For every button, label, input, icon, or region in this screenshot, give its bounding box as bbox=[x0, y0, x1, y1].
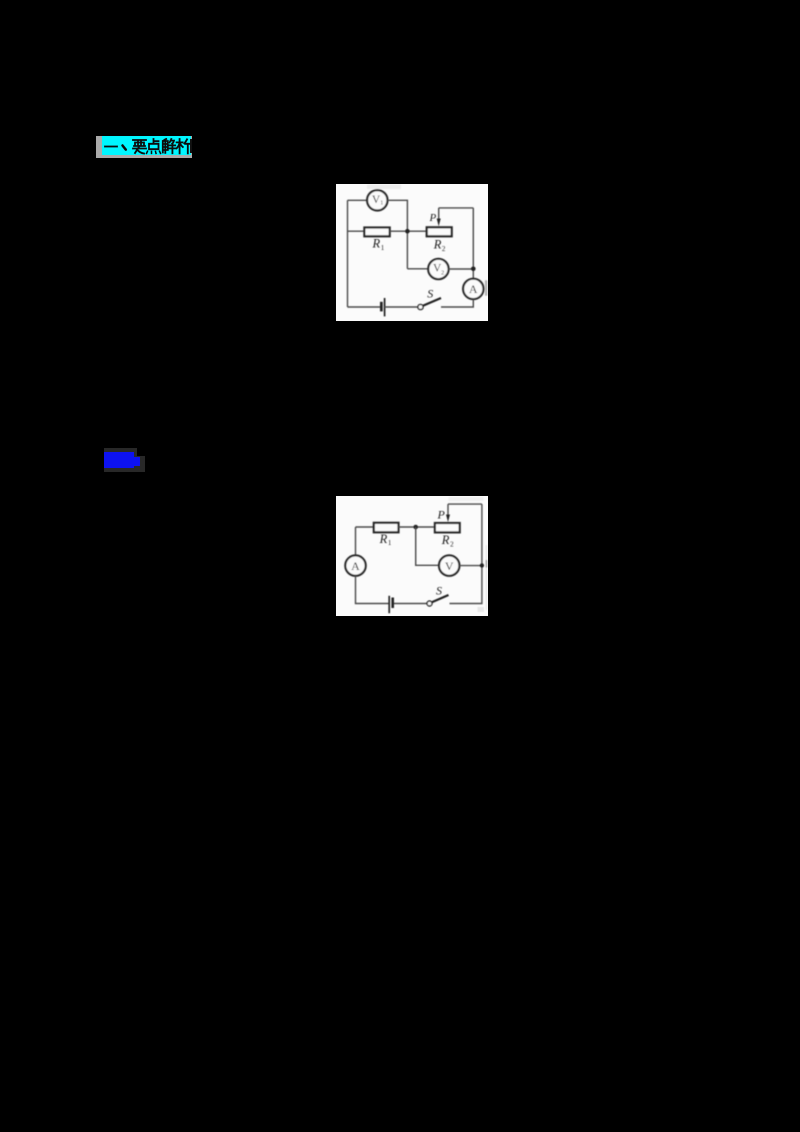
figure 2 white panel bbox=[336, 496, 488, 616]
header caret bar bbox=[190, 139, 192, 153]
scan artifact gray tick bbox=[485, 280, 488, 295]
figure 1 white panel bbox=[336, 184, 488, 321]
voltmeter V bbox=[439, 555, 459, 575]
glyph 一 bbox=[105, 146, 117, 148]
glyph 、 bbox=[123, 146, 126, 150]
label R2 bbox=[433, 238, 446, 253]
scan artifact gray tick bbox=[486, 560, 488, 568]
svg-text:V: V bbox=[445, 559, 454, 573]
wire: main wire left segment bbox=[348, 230, 365, 232]
ammeter A bbox=[345, 555, 365, 575]
wire: right bus down to ammeter bbox=[472, 208, 474, 279]
label R1 bbox=[372, 237, 385, 252]
scan artifact gray strip bbox=[449, 497, 484, 501]
section header highlight backing bbox=[96, 136, 192, 158]
wire: wiper top to right bus bbox=[439, 207, 474, 209]
scan artifact faint edge line bbox=[485, 545, 487, 610]
glyph 析 bbox=[177, 139, 191, 153]
wire: V1 right to corner, down to main wire, down to V2 level bbox=[387, 200, 407, 268]
scan artifact light streak bbox=[367, 185, 401, 190]
wire: V right to right bus bbox=[459, 565, 482, 567]
wire: V2 right to right bus bbox=[448, 268, 473, 270]
switch S lever bbox=[432, 595, 448, 602]
wire: V branch vertical and horizontal bbox=[416, 527, 439, 565]
wire: R1 to junction to R2 bbox=[390, 230, 427, 232]
junction node dot bbox=[413, 525, 418, 530]
resistor R1 bbox=[364, 228, 389, 237]
svg-text:R: R bbox=[372, 237, 381, 251]
junction node dot on right bus bbox=[471, 267, 476, 272]
header text (hand-drawn CJK strokes) bbox=[102, 136, 194, 156]
example marker blue blob bbox=[104, 452, 134, 468]
wire: V2 branch horizontal bbox=[407, 268, 428, 270]
wiper arrow of R2 bbox=[446, 504, 450, 522]
wire: top branch to V1 bbox=[348, 199, 368, 201]
svg-text:R: R bbox=[441, 533, 450, 547]
junction node dot bbox=[405, 229, 410, 234]
wire: battery to switch bbox=[385, 306, 418, 308]
svg-text:1: 1 bbox=[388, 539, 392, 547]
svg-text:1: 1 bbox=[381, 244, 385, 252]
svg-text:A: A bbox=[351, 559, 360, 573]
wire: left vertical to ammeter bbox=[355, 527, 357, 556]
resistor R1 bbox=[374, 523, 399, 533]
wire: left corner to R1 bbox=[356, 526, 374, 528]
wire: wiper top to right bus bbox=[448, 503, 482, 505]
label R1 bbox=[379, 532, 392, 547]
ammeter A bbox=[463, 279, 483, 299]
label R2 bbox=[441, 533, 454, 548]
svg-text:R: R bbox=[379, 532, 388, 546]
scan artifact bottom smudge bbox=[478, 607, 485, 612]
potentiometer R2 bbox=[435, 523, 460, 532]
section header cyan highlight bbox=[102, 136, 191, 155]
svg-text:P: P bbox=[437, 507, 446, 521]
wire: bottom left segment to battery bbox=[348, 306, 381, 308]
svg-text:S: S bbox=[427, 287, 433, 301]
wire: ammeter bottom to bottom wire bbox=[441, 299, 473, 307]
wire: R1 to junction to R2 bbox=[399, 526, 435, 528]
svg-text:S: S bbox=[436, 584, 442, 598]
example marker gray backing bbox=[104, 448, 137, 472]
wire: left bus vertical bbox=[347, 200, 349, 307]
svg-text:2: 2 bbox=[450, 540, 454, 548]
wire: battery to switch bbox=[394, 603, 427, 605]
glyph 要 bbox=[133, 140, 146, 154]
battery cell bbox=[389, 596, 394, 613]
wiper arrow of R2 bbox=[437, 208, 441, 226]
svg-text:1: 1 bbox=[380, 200, 383, 206]
wire: right bus down to bottom bbox=[450, 504, 482, 603]
svg-text:2: 2 bbox=[442, 245, 446, 253]
svg-text:P: P bbox=[429, 212, 437, 224]
wire: ammeter to bottom wire to battery bbox=[356, 576, 389, 604]
glyph 解 bbox=[163, 139, 176, 153]
voltmeter V1 bbox=[367, 190, 387, 210]
junction node dot on right bus bbox=[480, 563, 484, 567]
svg-text:2: 2 bbox=[441, 270, 444, 276]
voltmeter V2 bbox=[428, 259, 448, 279]
svg-text:R: R bbox=[433, 238, 442, 252]
switch S pivot circle bbox=[418, 304, 423, 309]
switch S pivot circle bbox=[427, 601, 432, 606]
svg-text:A: A bbox=[469, 282, 478, 296]
potentiometer R2 bbox=[427, 227, 452, 236]
battery cell bbox=[380, 298, 385, 316]
glyph 点 bbox=[147, 139, 161, 153]
switch S lever bbox=[423, 298, 441, 306]
